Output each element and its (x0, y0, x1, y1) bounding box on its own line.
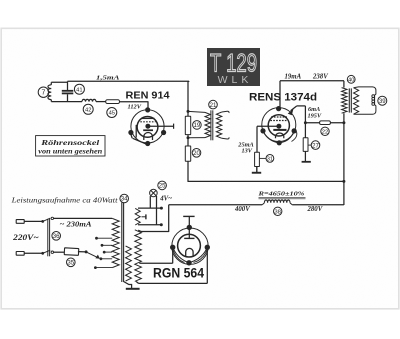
wire prong upper (24, 220, 43, 222)
wire rail 400V right (292, 204, 344, 206)
switch pivot (85, 250, 88, 253)
svg-text:42: 42 (85, 107, 91, 113)
fuse 36 pin upper (51, 217, 53, 219)
svg-text:~ 230mA: ~ 230mA (60, 220, 92, 229)
lamp 25 (150, 189, 158, 197)
wire fuse to primary (54, 217, 113, 219)
label 21 (209, 100, 218, 109)
wire grid down (256, 126, 258, 152)
svg-text:35: 35 (67, 260, 74, 267)
resistor 22 (320, 121, 331, 125)
wire resistor 27 to ground (304, 151, 306, 161)
svg-text:19mA: 19mA (285, 73, 302, 80)
resistor 19 (185, 116, 190, 134)
switch arm (86, 252, 100, 259)
text 19mA 238V (285, 73, 329, 80)
label 27 pointer (308, 144, 312, 146)
RGN anode bar (184, 237, 194, 239)
RENS pin center (276, 124, 281, 129)
resistor 27 (303, 138, 308, 152)
junction (41, 252, 44, 255)
speaker 39 (354, 87, 376, 114)
junction (342, 121, 345, 124)
text 112V (128, 103, 142, 110)
text 13V (242, 148, 253, 155)
svg-text:13V: 13V (242, 148, 253, 155)
fuse 36 body (48, 219, 50, 256)
resistor 45 (106, 100, 120, 104)
speaker coil (372, 95, 375, 106)
t34 core ground (124, 282, 140, 290)
tube RGN outer circle (172, 228, 208, 264)
wire to coil 42 (51, 101, 82, 103)
svg-text:39: 39 (379, 99, 386, 105)
svg-text:RENS 1374d: RENS 1374d (249, 91, 317, 103)
REN pin left (128, 130, 133, 135)
fuse 36 contact lower (43, 250, 51, 253)
svg-text:RGN 564: RGN 564 (153, 266, 204, 281)
wire between 19 and 20 (187, 135, 189, 146)
label 27 (311, 141, 320, 150)
svg-text:REN 914: REN 914 (126, 90, 170, 101)
wire anode inside (188, 227, 190, 238)
t34 tap 1 (95, 237, 112, 240)
RENS pin left (260, 128, 265, 133)
t34 core (122, 202, 124, 282)
t34 tap 4 (100, 257, 113, 260)
REN grid dashes (140, 121, 155, 123)
wire 195V line (305, 122, 344, 124)
t21 secondary top lead (222, 111, 229, 113)
wire arrow to corner (297, 106, 306, 123)
svg-text:238V: 238V (312, 73, 328, 80)
text 220V (12, 233, 39, 242)
RENS pin bottom (277, 140, 282, 145)
t34 primary winding (112, 218, 119, 267)
text 4V (159, 195, 172, 202)
REN cathode hook (131, 125, 147, 144)
REN pin right (161, 130, 166, 135)
svg-text:31: 31 (267, 156, 273, 162)
t40 core (349, 88, 351, 112)
RGN pin bottom (186, 260, 191, 265)
wire coil bottom (50, 100, 52, 102)
label 20 (192, 149, 201, 158)
svg-text:20: 20 (193, 150, 200, 157)
t34 HT winding B2 (135, 230, 142, 282)
label 35 (67, 258, 76, 267)
RENS pin top (276, 106, 281, 111)
wire right pin down (206, 248, 208, 283)
wire anode up (279, 81, 281, 109)
svg-text:112V: 112V (128, 103, 142, 110)
t34 filament winding A (126, 246, 132, 281)
REN pin top (145, 107, 150, 112)
title box T129 WLK (207, 48, 260, 86)
wire prong lower (24, 252, 43, 254)
wire 4V bottom (138, 223, 163, 226)
RGN cathode curve right (189, 247, 207, 262)
fuse 36 pin lower (51, 251, 53, 253)
t34 screen tap (142, 214, 146, 219)
svg-text:220V~: 220V~ (12, 233, 39, 242)
label 40 (347, 75, 355, 83)
svg-text:27: 27 (312, 143, 319, 149)
RENS grid dashes row1 (271, 116, 287, 118)
wire below resistor 20 (187, 161, 189, 182)
wire 4V top (138, 207, 163, 210)
wire 400V corner (138, 205, 169, 232)
svg-text:WLK: WLK (218, 74, 253, 86)
t21 primary winding (188, 111, 210, 137)
switch lead (78, 251, 86, 253)
wire fuse to switch (54, 251, 65, 253)
lamp lead right (156, 196, 158, 225)
t34 tap 5 (94, 266, 112, 269)
text 230mA (60, 220, 92, 229)
text 195V (308, 112, 322, 119)
text 400V (234, 206, 250, 213)
wire rail 400V left (169, 204, 263, 206)
label 39 (378, 96, 387, 105)
label 25 (158, 181, 167, 190)
label 19 (193, 121, 202, 130)
svg-text:4V~: 4V~ (159, 195, 172, 202)
REN pin center (145, 124, 150, 129)
resistor 20 (185, 146, 190, 161)
t34 tap 3 (103, 251, 112, 254)
wire coil top to node (51, 82, 67, 85)
t40 secondary winding (354, 88, 359, 115)
RGN pin top (187, 225, 192, 230)
text 280V (307, 206, 323, 213)
RENS cathode bar (273, 129, 286, 131)
wire bottom (136, 282, 207, 284)
wire winding to left pin (139, 247, 172, 263)
text RGN 564 (153, 266, 204, 281)
svg-text:45: 45 (109, 111, 115, 117)
wire top down segment (188, 81, 189, 117)
coil 42 (82, 99, 96, 101)
plug prong lower (16, 252, 24, 256)
label 31 (266, 155, 274, 163)
text 1,5mA (96, 75, 120, 82)
RGN pin left (170, 245, 175, 250)
svg-text:21: 21 (210, 102, 217, 109)
svg-text:36: 36 (53, 233, 60, 240)
wire 238V to t40 (343, 81, 345, 88)
wire coil42 to resistor 45 (96, 101, 106, 103)
RENS grid lead (257, 125, 279, 127)
resistor 31 (255, 152, 260, 166)
svg-text:Leistungsaufnahme ca 40Watt: Leistungsaufnahme ca 40Watt (10, 197, 118, 205)
junction (187, 110, 190, 113)
label 45 (107, 108, 117, 118)
RENS grid dashes row2 (270, 120, 287, 122)
tube RENS outer circle (262, 108, 296, 142)
wire rail 280V (188, 180, 344, 182)
t21 primary bottom lead (0, 0, 1, 1)
RENS screen arrow (288, 106, 297, 115)
text REN 914 (126, 90, 170, 101)
svg-text:7: 7 (41, 90, 45, 97)
svg-text:von unten gesehen: von unten gesehen (38, 147, 102, 155)
svg-text:22: 22 (322, 129, 329, 135)
svg-text:41: 41 (76, 87, 82, 93)
REN pin bottom (145, 141, 150, 146)
label 41 (74, 84, 84, 94)
plug prong upper (16, 220, 24, 224)
svg-text:40: 40 (348, 77, 354, 83)
RGN pin right (205, 245, 210, 250)
RENS pin right (292, 128, 297, 133)
RENS filament arch (276, 133, 284, 138)
text R=4650 pm 10 percent (257, 190, 304, 197)
wire 1,5mA line (68, 80, 190, 82)
RENS cathode curve left (263, 131, 279, 143)
tube REN 914 inner circle (137, 117, 158, 138)
label 31 pointer (259, 157, 266, 159)
ground below 27 (302, 161, 311, 163)
wire t40 down (343, 113, 345, 205)
t21 secondary winding (216, 112, 221, 138)
svg-text:400V: 400V (234, 206, 250, 213)
svg-text:25: 25 (159, 183, 166, 190)
text Leistungsaufnahme (10, 197, 118, 205)
tube RGN inner circle (178, 234, 201, 257)
text RENS 1374d (249, 91, 317, 103)
wire resistor 31 to ground (256, 167, 258, 173)
antenna coil (48, 85, 51, 100)
t34 heater winding B1 (135, 208, 140, 225)
t40 primary winding (342, 88, 347, 114)
junction (304, 121, 307, 124)
svg-text:1,5mA: 1,5mA (96, 75, 120, 82)
tube REN 914 outer circle (131, 110, 164, 143)
REN grid bar (141, 117, 154, 119)
REN cathode bar (143, 129, 153, 131)
RGN cathode curve left (173, 247, 189, 262)
tube RENS inner circle (268, 115, 289, 136)
t21 primary top lead (0, 0, 1, 1)
wire to resistor 27 (304, 123, 306, 138)
RGN top cap (183, 216, 194, 227)
label 22 (321, 127, 329, 135)
REN center lead (148, 124, 174, 129)
svg-text:38: 38 (274, 209, 281, 215)
label 42 (83, 104, 93, 114)
switch 35 (64, 248, 79, 256)
svg-text:195V: 195V (308, 112, 322, 119)
text 25mA (237, 141, 253, 148)
wire 238V line (280, 80, 344, 82)
svg-text:280V: 280V (307, 206, 323, 213)
wire resistor 45 to tube (120, 102, 149, 110)
t34 tap 2 (101, 244, 113, 247)
junction (342, 180, 345, 183)
REN filament arch (144, 133, 153, 141)
text 6mA (308, 106, 320, 113)
choke 38 (262, 200, 292, 205)
terminal 7 (38, 87, 48, 97)
svg-text:Röhrensockel: Röhrensockel (40, 138, 101, 147)
t21 core (211, 110, 213, 140)
RGN filament arch (186, 248, 193, 256)
capacitor 41 (62, 81, 74, 101)
svg-text:34: 34 (121, 196, 128, 203)
fuse 36 contact upper (43, 218, 51, 221)
double underline (259, 197, 306, 199)
lamp lead left (149, 196, 151, 208)
label 34 (120, 194, 129, 203)
junction (187, 136, 190, 139)
junction (41, 220, 44, 223)
RENS cathode curve right (279, 130, 297, 143)
svg-text:R=4650±10%: R=4650±10% (257, 190, 304, 197)
svg-text:19: 19 (194, 122, 201, 129)
ground below 31 (252, 172, 261, 174)
note box (36, 136, 105, 156)
label 36 (52, 232, 61, 241)
label 38 (274, 207, 282, 215)
t21 secondary bottom lead (222, 137, 229, 139)
